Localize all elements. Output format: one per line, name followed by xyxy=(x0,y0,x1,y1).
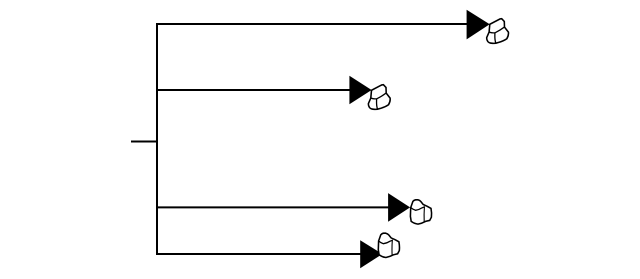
trunk wire xyxy=(156,23,158,255)
tooth icon 3 xyxy=(410,200,431,224)
arrowhead 4 xyxy=(360,240,382,268)
arrowhead 1 xyxy=(467,10,490,40)
tooth icon 2 xyxy=(368,85,390,110)
arrowhead 2 xyxy=(349,76,371,105)
tooth icon 4 xyxy=(378,233,399,257)
branch 1 wire xyxy=(156,23,467,25)
branch 2 wire xyxy=(156,89,350,91)
branch 4 wire xyxy=(156,253,361,255)
branch 3 wire xyxy=(156,206,389,208)
arrowhead 3 xyxy=(388,193,410,222)
root stub wire xyxy=(131,141,157,143)
tooth icon 1 xyxy=(487,19,509,44)
